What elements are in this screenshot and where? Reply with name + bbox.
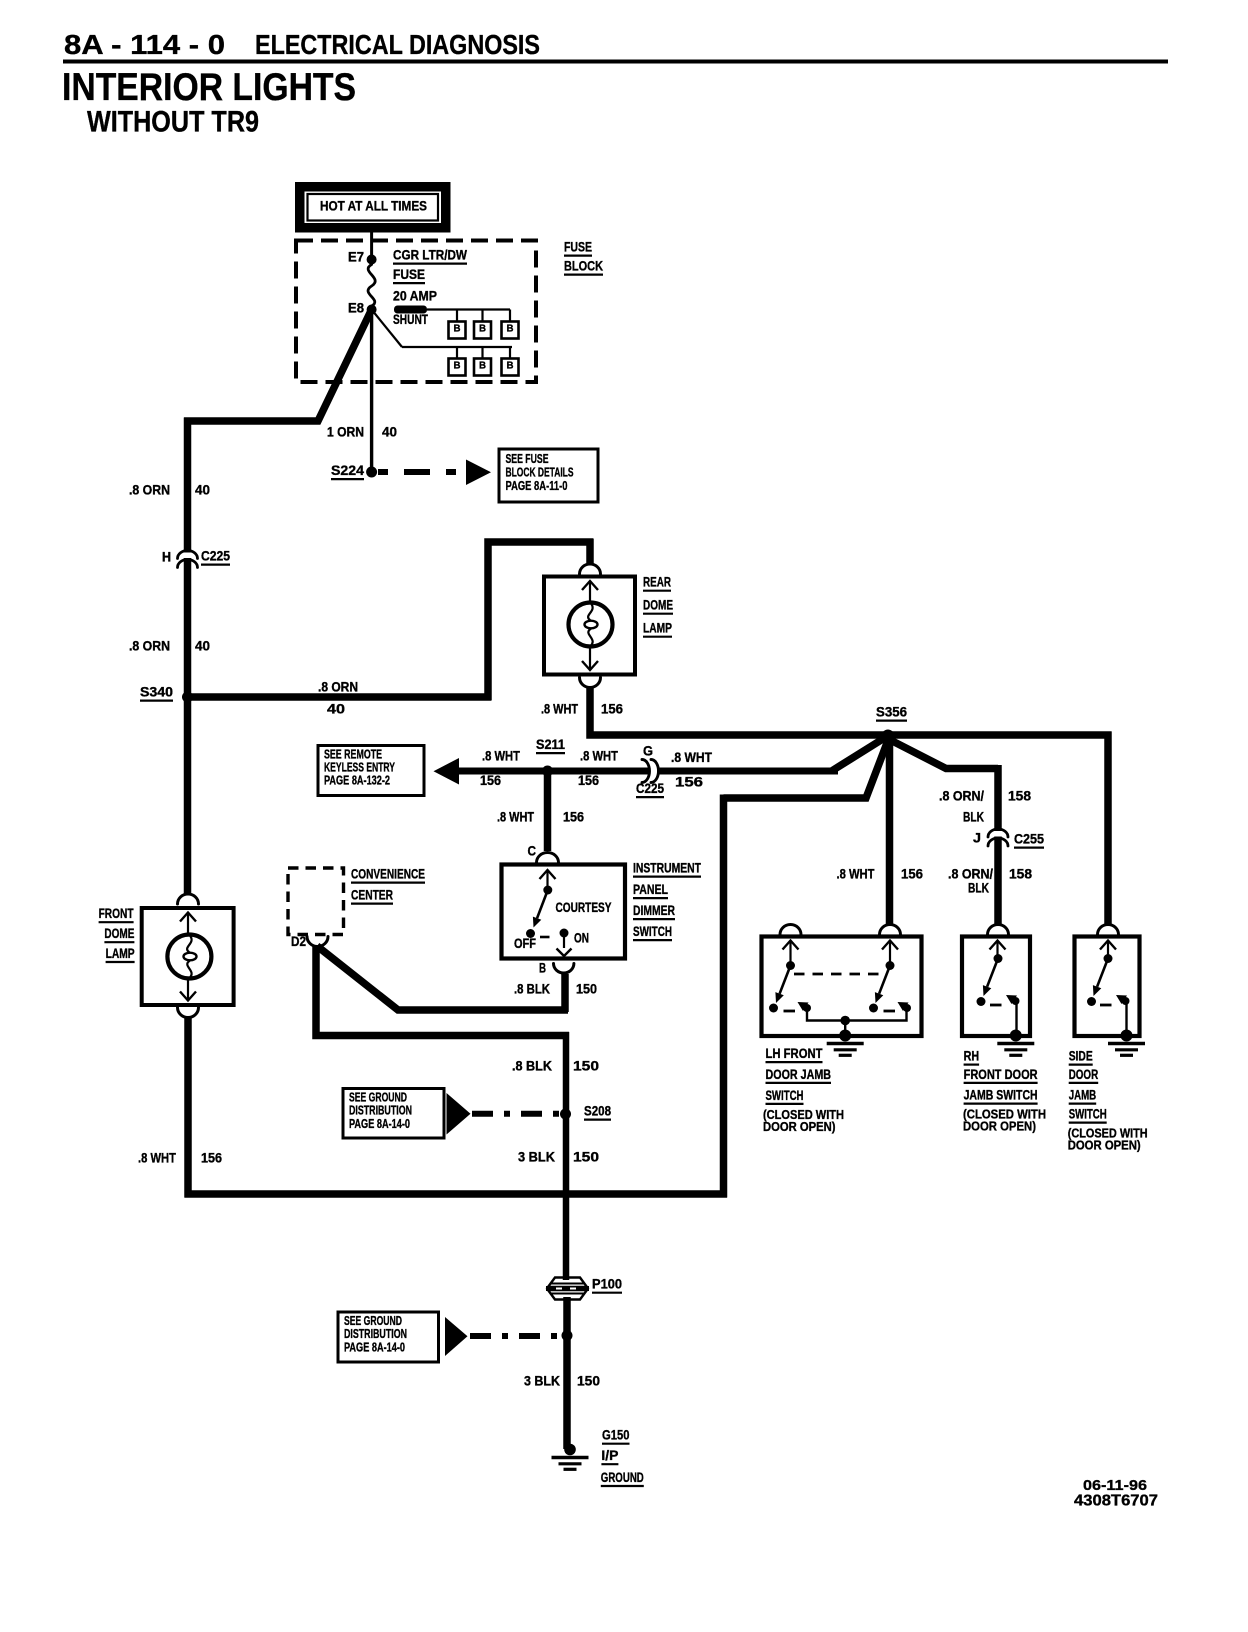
wire front dome lamp to bottom return, .8 WHT 156 (184, 1017, 192, 1198)
svg-text:H: H (162, 550, 171, 565)
svg-text:WITHOUT TR9: WITHOUT TR9 (87, 106, 259, 139)
svg-text:20 AMP: 20 AMP (393, 289, 437, 304)
svg-text:LAMP: LAMP (106, 946, 135, 961)
svg-text:CONVENIENCE: CONVENIENCE (351, 867, 425, 882)
fuse terminal B1 (449, 322, 466, 339)
svg-text:.8 WHT: .8 WHT (837, 867, 876, 882)
svg-text:.8 ORN: .8 ORN (129, 639, 170, 654)
wire S356 diagonal to left vertical return (724, 739, 889, 798)
svg-text:G150: G150 (602, 1428, 630, 1443)
svg-text:3 BLK: 3 BLK (518, 1150, 555, 1165)
svg-text:INTERIOR LIGHTS: INTERIOR LIGHTS (62, 66, 356, 109)
shunt (394, 306, 427, 314)
fuse CGR LTR/DW 20 AMP (368, 265, 375, 307)
svg-text:C225: C225 (201, 549, 230, 564)
fuse terminal B5 (474, 359, 491, 376)
svg-text:B: B (479, 360, 486, 372)
reference box: see ground distribution page 8A-14-0 (upper) (343, 1089, 444, 1139)
wire .8 ORN 40 left vertical lower (184, 558, 192, 697)
RH front door jamb switch (962, 937, 1030, 1037)
svg-text:COURTESY: COURTESY (556, 900, 612, 915)
side door jamb switch (1075, 937, 1140, 1037)
svg-text:S224: S224 (331, 463, 365, 478)
wire E8 to S224, 1 ORN 40 (370, 310, 373, 473)
wire C255 to RH door jamb switch, .8 ORN/BLK 158 (994, 837, 1002, 925)
connector C225 pin H (178, 551, 198, 559)
svg-text:LAMP: LAMP (643, 621, 672, 636)
courtesy switch connector pin C (537, 853, 559, 863)
svg-text:C225: C225 (636, 781, 664, 796)
LH switch contacts to common (784, 1010, 796, 1013)
svg-text:158: 158 (1008, 789, 1032, 804)
connector C225 pin G (642, 760, 650, 783)
svg-text:B: B (454, 360, 461, 372)
svg-text:S208: S208 (584, 1104, 611, 1119)
svg-text:SWITCH: SWITCH (633, 924, 672, 939)
rear dome lamp connector bottom (580, 678, 601, 688)
svg-text:RH: RH (964, 1049, 980, 1064)
svg-text:S356: S356 (876, 705, 907, 720)
svg-text:PAGE 8A-14-0: PAGE 8A-14-0 (344, 1340, 405, 1355)
svg-text:CGR LTR/DW: CGR LTR/DW (393, 248, 467, 263)
svg-text:REAR: REAR (643, 575, 671, 590)
svg-text:156: 156 (601, 702, 623, 717)
svg-text:.8 WHT: .8 WHT (671, 750, 713, 765)
svg-text:.8 BLK: .8 BLK (512, 1059, 552, 1074)
courtesy switch connector pin B (554, 964, 574, 974)
svg-text:PAGE 8A-132-2: PAGE 8A-132-2 (324, 773, 390, 788)
arrow from ground distribution reference (447, 1093, 471, 1135)
LH switch ground (839, 1030, 851, 1042)
wire rear dome lamp to S356, .8 WHT 156 (590, 688, 1112, 736)
arrow from ground distribution reference (lower) (445, 1317, 468, 1356)
header rule (63, 60, 1168, 64)
svg-text:SIDE: SIDE (1069, 1049, 1093, 1064)
connector D2 (307, 937, 328, 947)
svg-text:FRONT DOOR: FRONT DOOR (964, 1067, 1038, 1082)
wire P100 to ground distribution splice (563, 1297, 571, 1449)
svg-text:G: G (643, 744, 653, 759)
svg-text:SWITCH: SWITCH (766, 1088, 804, 1103)
svg-text:B: B (479, 323, 486, 335)
svg-text:DOOR OPEN): DOOR OPEN) (963, 1119, 1036, 1134)
svg-text:BLK: BLK (968, 881, 989, 896)
fuse terminal B4 (449, 359, 466, 376)
wire from E8 to lower fuse terminals (372, 310, 402, 348)
svg-text:DOME: DOME (643, 598, 673, 613)
wire .8 ORN 40 left vertical upper (184, 418, 192, 553)
svg-text:ON: ON (574, 931, 589, 946)
svg-text:PAGE 8A-11-0: PAGE 8A-11-0 (506, 478, 568, 493)
svg-text:.8 ORN: .8 ORN (318, 680, 358, 695)
svg-text:HOT AT ALL TIMES: HOT AT ALL TIMES (320, 199, 427, 214)
svg-text:156: 156 (675, 775, 703, 790)
svg-text:1 ORN: 1 ORN (327, 425, 364, 440)
svg-text:INSTRUMENT: INSTRUMENT (633, 861, 702, 876)
svg-text:4308T6707: 4308T6707 (1074, 1493, 1158, 1510)
node E7 (367, 255, 377, 265)
svg-text:CENTER: CENTER (351, 888, 393, 903)
gang dashed link (794, 973, 886, 976)
svg-text:.8 WHT: .8 WHT (580, 749, 619, 764)
wire S211 to courtesy switch, .8 WHT 156 (544, 771, 552, 851)
svg-text:FRONT: FRONT (99, 906, 135, 921)
wire S356 to C255, .8 ORN/BLK 158 (887, 738, 999, 769)
arrow to see fuse block details (466, 460, 491, 486)
svg-text:40: 40 (195, 639, 210, 654)
fuse terminal B3 (502, 322, 519, 339)
wire S356 down to LH door jamb switch, .8 WHT 156 (886, 738, 894, 924)
svg-text:E8: E8 (348, 301, 365, 316)
fuse block dashed box (296, 241, 536, 383)
svg-text:SWITCH: SWITCH (1069, 1107, 1107, 1122)
instrument panel dimmer switch (courtesy) (502, 865, 626, 959)
svg-text:DOOR JAMB: DOOR JAMB (766, 1067, 832, 1082)
side switch ground (1121, 1030, 1133, 1042)
svg-text:.8 ORN/: .8 ORN/ (948, 867, 993, 882)
svg-text:BLOCK: BLOCK (564, 259, 603, 274)
svg-text:C255: C255 (1014, 832, 1045, 847)
svg-text:P100: P100 (592, 1277, 622, 1292)
svg-text:.8 WHT: .8 WHT (482, 749, 521, 764)
dashed wire from reference to S208 (472, 1111, 560, 1117)
svg-text:.8 ORN/: .8 ORN/ (939, 789, 984, 804)
svg-text:DOOR OPEN): DOOR OPEN) (763, 1119, 836, 1134)
svg-text:06-11-96: 06-11-96 (1083, 1477, 1147, 1494)
svg-text:D2: D2 (291, 934, 306, 949)
RH front door jamb switch connector (988, 925, 1009, 935)
svg-text:JAMB: JAMB (1069, 1088, 1097, 1103)
wire S211 line with keyless entry reference, .8 WHT 156 (455, 768, 649, 775)
svg-text:PANEL: PANEL (633, 882, 668, 897)
side door jamb switch connector (1098, 925, 1119, 935)
ground G150 I/P GROUND (564, 1444, 576, 1456)
svg-text:J: J (973, 831, 981, 846)
wire S356 diagonal to S211 line (832, 737, 886, 771)
svg-text:.8 ORN: .8 ORN (129, 483, 170, 498)
bottom return wire (185, 1190, 728, 1198)
wire E8 down-left thick diagonal (184, 310, 372, 422)
svg-text:.8 WHT: .8 WHT (541, 702, 579, 717)
svg-text:I/P: I/P (601, 1448, 618, 1463)
wire S340 down to front dome lamp (184, 700, 192, 894)
svg-text:JAMB SWITCH: JAMB SWITCH (964, 1088, 1038, 1103)
LH front door jamb switch connector left (780, 925, 801, 935)
svg-text:DOME: DOME (104, 926, 134, 941)
grommet P100 (548, 1278, 587, 1288)
wire S356 to side door jamb switch (1104, 732, 1112, 925)
svg-text:OFF: OFF (514, 936, 536, 951)
fuse terminal B2 (474, 322, 491, 339)
svg-text:S340: S340 (140, 685, 173, 700)
svg-text:158: 158 (1009, 867, 1033, 882)
connector C255 pin J (988, 829, 1008, 837)
svg-text:156: 156 (901, 867, 923, 882)
svg-text:156: 156 (201, 1151, 222, 1166)
svg-text:BLK: BLK (963, 810, 984, 825)
wire S340 to rear dome lamp, .8 ORN 40 (188, 693, 492, 701)
wire D2 down and right to S208 wire (316, 945, 569, 1036)
svg-text:40: 40 (382, 425, 397, 440)
svg-text:40: 40 (195, 483, 210, 498)
svg-text:150: 150 (577, 1374, 600, 1389)
fuse terminal B6 (502, 359, 519, 376)
svg-text:8A - 114 - 0: 8A - 114 - 0 (64, 29, 225, 60)
svg-text:PAGE 8A-14-0: PAGE 8A-14-0 (349, 1116, 410, 1131)
reference box: see remote keyless entry page 8A-132-2 (318, 746, 424, 796)
svg-text:156: 156 (578, 773, 599, 788)
svg-text:SHUNT: SHUNT (393, 312, 429, 327)
svg-text:DIMMER: DIMMER (633, 903, 675, 918)
svg-text:.8 BLK: .8 BLK (514, 982, 550, 997)
front dome lamp connector top (178, 894, 199, 904)
reference box: see ground distribution page 8A-14-0 (lower) (338, 1312, 439, 1362)
wire from shunt to fuse terminals (427, 308, 510, 310)
svg-text:.8 WHT: .8 WHT (138, 1151, 177, 1166)
wire S208 to P100, 3 BLK 150 (563, 1114, 570, 1280)
svg-text:ELECTRICAL DIAGNOSIS: ELECTRICAL DIAGNOSIS (255, 29, 540, 60)
svg-text:DOOR OPEN): DOOR OPEN) (1068, 1138, 1141, 1153)
svg-text:C: C (528, 844, 537, 859)
svg-text:FUSE: FUSE (393, 267, 425, 282)
svg-text:3 BLK: 3 BLK (524, 1374, 560, 1389)
svg-text:B: B (507, 360, 514, 372)
svg-text:.8 WHT: .8 WHT (497, 810, 535, 825)
svg-text:40: 40 (327, 702, 345, 717)
svg-text:B: B (539, 961, 546, 976)
svg-text:FUSE: FUSE (564, 240, 592, 255)
svg-text:B: B (454, 323, 461, 335)
RH switch ground (1010, 1030, 1022, 1042)
svg-text:156: 156 (563, 810, 584, 825)
front dome lamp (142, 908, 234, 1005)
splice at ground distribution reference (562, 1330, 573, 1341)
svg-text:B: B (507, 323, 514, 335)
dashed wire to splice (470, 1333, 558, 1339)
rear dome lamp connector top (580, 564, 601, 574)
svg-text:S211: S211 (536, 737, 566, 752)
wire from HOT AT ALL TIMES to E7 (370, 233, 373, 256)
rear dome lamp (544, 577, 635, 675)
HOT AT ALL TIMES box (295, 182, 451, 233)
svg-text:150: 150 (576, 982, 597, 997)
node E8 (367, 305, 377, 315)
LH front door jamb switch connector right (880, 925, 901, 935)
reference box: see fuse block details page 8A-11-0 (499, 449, 598, 502)
arrow to see remote keyless entry (434, 758, 460, 785)
svg-text:DOOR: DOOR (1069, 1067, 1099, 1082)
svg-text:150: 150 (573, 1150, 599, 1165)
svg-text:GROUND: GROUND (601, 1470, 644, 1485)
wire to S208, .8 BLK 150 (563, 1032, 570, 1114)
convenience center dashed box (288, 868, 344, 935)
svg-text:E7: E7 (348, 250, 364, 265)
svg-text:LH FRONT: LH FRONT (766, 1046, 824, 1061)
dashed wire to fuse block details reference (378, 469, 466, 475)
LH front door jamb switch (762, 937, 922, 1037)
wire D2 diagonal to courtesy B wire (317, 946, 568, 1010)
svg-text:150: 150 (573, 1059, 599, 1074)
front dome lamp connector bottom (178, 1008, 199, 1018)
splice S208 (560, 1109, 571, 1120)
wire courtesy switch B down, .8 BLK 150 (561, 974, 569, 1012)
svg-text:156: 156 (480, 773, 501, 788)
